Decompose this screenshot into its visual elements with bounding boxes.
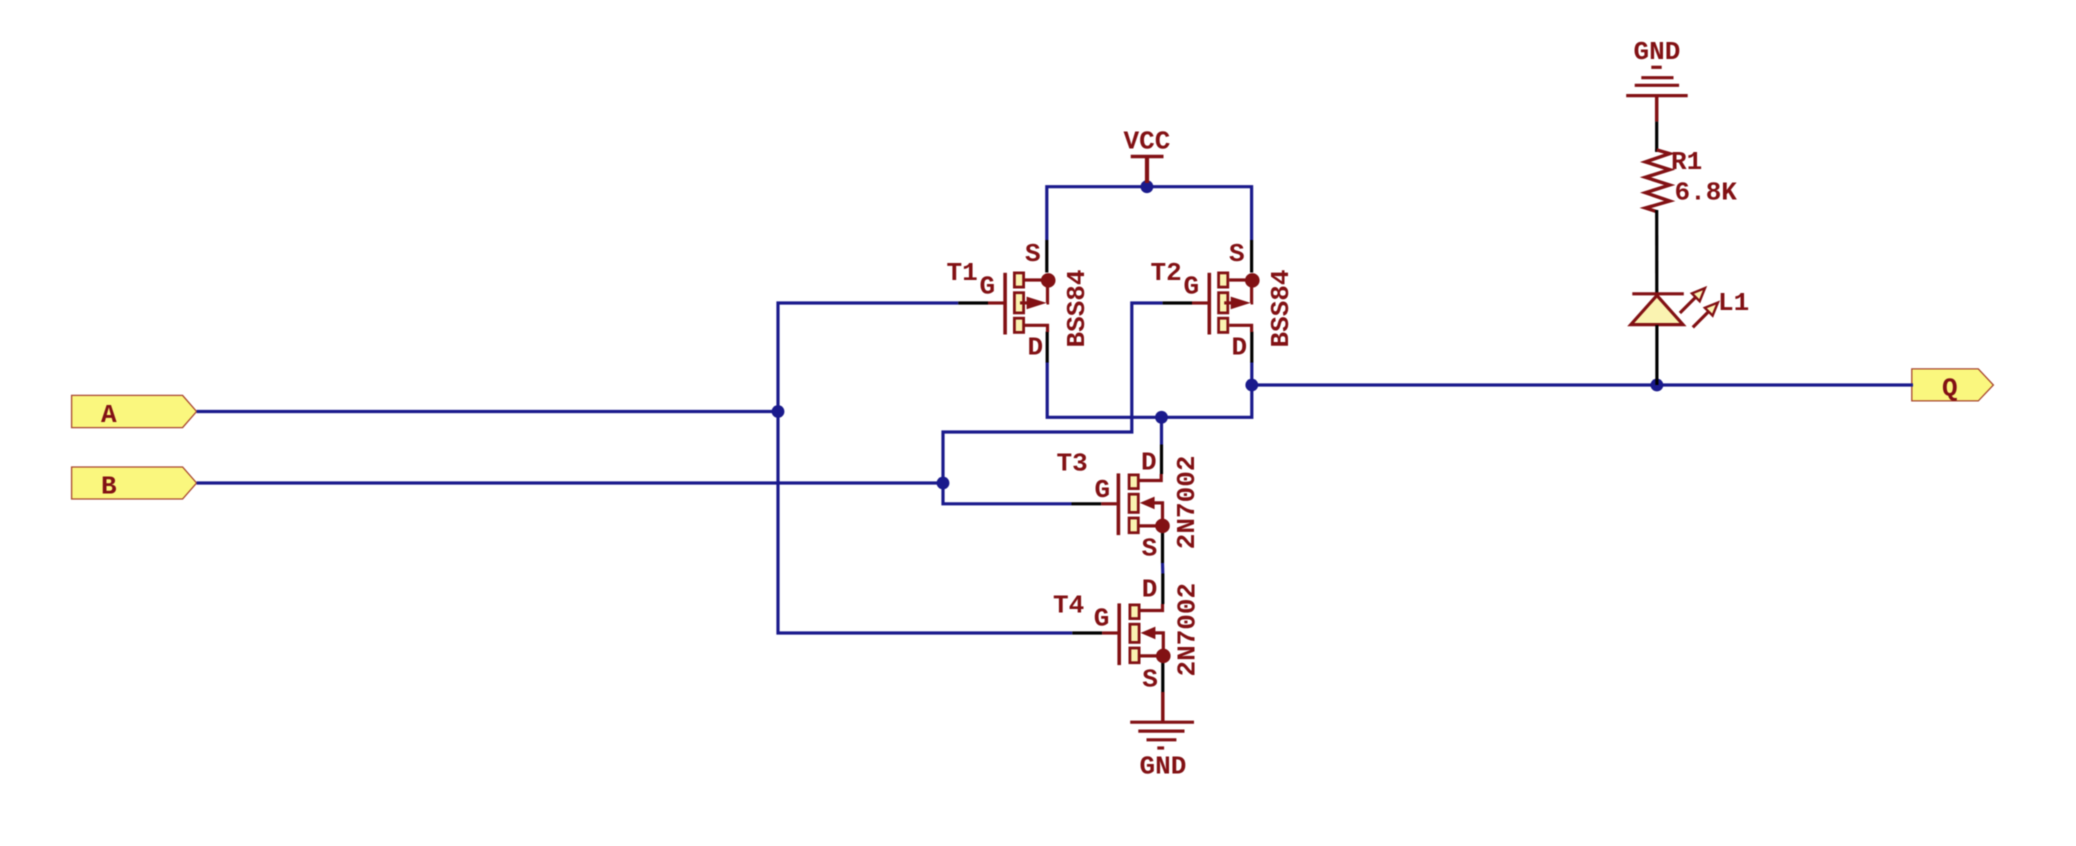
channel box bottom T2 <box>1219 318 1228 332</box>
channel box middle T1 <box>1014 293 1023 313</box>
channel box middle T4 <box>1130 624 1139 642</box>
svg-text:GND: GND <box>1140 752 1187 782</box>
channel box middle T3 <box>1129 494 1138 512</box>
pin D of T1 <box>1046 332 1049 363</box>
gnd dash small bottom <box>1157 746 1164 749</box>
svg-text:L1: L1 <box>1718 288 1749 318</box>
bulk arrow T3 <box>1140 497 1155 510</box>
supply symbol VCC <box>1124 127 1171 184</box>
source link T4 <box>1140 654 1163 657</box>
channel box top T3 <box>1129 475 1138 489</box>
pin 2 of L1 <box>1655 325 1658 385</box>
gate lead T3 <box>1101 502 1117 505</box>
light arrow 1 shaft <box>1680 297 1696 313</box>
bulk arrow T4 <box>1141 627 1156 640</box>
node junction A <box>772 405 785 418</box>
transistor T4 2N7002 <box>1053 574 1203 695</box>
svg-text:T3: T3 <box>1057 449 1088 479</box>
gate lead T4 <box>1102 631 1118 634</box>
transistor T2 BSS84 <box>1151 239 1297 363</box>
pin S of T4 <box>1161 663 1164 694</box>
bulk line T1 <box>1047 280 1048 303</box>
wire net between T3 source and T4 drain <box>1161 563 1165 574</box>
svg-text:S: S <box>1229 239 1245 269</box>
gate bar T4 <box>1117 603 1121 665</box>
gnd dash small <box>1651 66 1661 69</box>
pin D of T3 <box>1160 445 1163 475</box>
wire net output branch down to T3 drain <box>1160 417 1163 444</box>
gate bar T1 <box>1003 273 1007 335</box>
svg-text:A: A <box>101 400 117 430</box>
node junction VCC <box>1141 180 1154 193</box>
node junction B <box>937 477 950 490</box>
pin D of T4 <box>1161 574 1164 605</box>
svg-text:D: D <box>1142 575 1158 605</box>
VCC bar <box>1131 155 1164 158</box>
gnd stub bottom <box>1161 692 1165 722</box>
svg-text:VCC: VCC <box>1124 127 1171 157</box>
wire net A branch up to T1 gate <box>778 303 958 412</box>
wire net B horizontal <box>197 481 943 484</box>
LED L1 <box>1631 288 1749 385</box>
pin G of T1 <box>958 301 988 304</box>
bulk line T2 <box>1251 280 1252 303</box>
svg-text:G: G <box>980 272 996 302</box>
wire net T2 drain stub <box>1250 362 1253 385</box>
pin 1 of R1 <box>1655 149 1658 152</box>
pin D of T2 <box>1250 332 1253 363</box>
svg-text:S: S <box>1142 665 1158 695</box>
wire net VCC rail <box>1047 187 1252 240</box>
wire net Q output horizontal <box>1252 383 1913 386</box>
channel box bottom T3 <box>1129 518 1138 533</box>
svg-text:2N7002: 2N7002 <box>1172 456 1202 550</box>
wire net B branch down to T3 gate <box>943 483 1072 504</box>
gate lead T2 <box>1192 301 1208 304</box>
pin S of T1 <box>1045 240 1048 273</box>
gnd stub <box>1655 96 1659 122</box>
light arrow 1 head <box>1692 288 1705 301</box>
source dot T4 <box>1156 649 1171 664</box>
bulk line T4 <box>1155 633 1164 656</box>
gate lead T1 <box>988 301 1004 304</box>
source link T2 <box>1229 278 1252 281</box>
channel box top T2 <box>1219 273 1228 287</box>
svg-text:BSS84: BSS84 <box>1062 269 1092 347</box>
wire net A branch down to T4 gate <box>778 412 1072 634</box>
gnd pin black <box>1655 122 1658 151</box>
gnd line 2 bottom <box>1138 729 1184 732</box>
transistor T1 BSS84 <box>947 239 1092 363</box>
resistor R1 <box>1645 147 1737 294</box>
svg-text:D: D <box>1028 333 1044 363</box>
pin S of T3 <box>1161 533 1164 564</box>
channel box middle T2 <box>1219 293 1228 313</box>
channel box top T1 <box>1014 273 1023 287</box>
svg-text:S: S <box>1142 534 1158 564</box>
bulk line T3 <box>1154 503 1163 526</box>
VCC stub <box>1145 157 1149 184</box>
drain link T3 <box>1139 474 1161 481</box>
svg-text:T4: T4 <box>1053 591 1084 621</box>
gate bar T2 <box>1208 273 1212 335</box>
gnd line 3 bottom <box>1147 738 1177 741</box>
drain link T4 <box>1140 604 1163 611</box>
svg-text:6.8K: 6.8K <box>1675 178 1738 208</box>
svg-text:T1: T1 <box>947 258 978 288</box>
drain link T2 <box>1229 325 1251 332</box>
source dot T1 <box>1041 273 1056 288</box>
transistor T3 2N7002 <box>1057 445 1202 564</box>
wire net B branch up to T2 gate <box>943 303 1163 483</box>
channel box top T4 <box>1130 605 1139 619</box>
zigzag body R1 <box>1645 150 1669 212</box>
light arrow 2 shaft <box>1693 312 1709 328</box>
svg-text:S: S <box>1025 239 1041 269</box>
svg-text:Q: Q <box>1942 373 1958 403</box>
svg-text:2N7002: 2N7002 <box>1173 583 1203 677</box>
source dot T2 <box>1245 273 1260 288</box>
svg-text:G: G <box>1094 604 1110 634</box>
triangle L1 <box>1631 295 1683 324</box>
cathode bar L1 <box>1632 292 1684 295</box>
pin 2 of R1 <box>1655 210 1658 294</box>
port flag Q <box>1912 369 1994 403</box>
gate bar T3 <box>1117 473 1121 535</box>
port flag A <box>72 395 197 429</box>
svg-text:G: G <box>1184 272 1200 302</box>
gnd line widest <box>1626 94 1688 97</box>
node junction LED <box>1651 379 1664 392</box>
pin G of T4 <box>1072 631 1102 634</box>
gnd line 3 <box>1635 84 1679 87</box>
channel box bottom T4 <box>1130 648 1139 663</box>
pin S of T2 <box>1250 240 1253 273</box>
svg-text:BSS84: BSS84 <box>1266 269 1296 347</box>
svg-text:R1: R1 <box>1671 147 1702 177</box>
ground symbol GND top right <box>1626 37 1688 151</box>
svg-text:D: D <box>1232 333 1248 363</box>
node junction output at T2 drain <box>1245 379 1258 392</box>
gnd line 2 <box>1641 76 1673 79</box>
pin G of T2 <box>1163 301 1192 304</box>
pin G of T3 <box>1072 502 1102 505</box>
svg-text:B: B <box>101 471 117 501</box>
bulk arrow T2 <box>1231 297 1251 310</box>
svg-text:G: G <box>1095 475 1111 505</box>
drain link T1 <box>1025 325 1048 332</box>
source dot T3 <box>1155 519 1170 534</box>
node junction output at T3 drain branch <box>1155 411 1168 424</box>
bulk arrow T1 <box>1027 297 1047 310</box>
svg-text:T2: T2 <box>1151 258 1182 288</box>
channel box bottom T1 <box>1014 318 1023 332</box>
svg-text:D: D <box>1141 448 1157 478</box>
source link T3 <box>1139 524 1162 527</box>
light arrow 2 head <box>1705 303 1718 316</box>
source link T1 <box>1025 278 1048 281</box>
wire net A horizontal <box>197 410 778 413</box>
svg-text:GND: GND <box>1634 37 1681 67</box>
gnd line widest bottom <box>1130 721 1194 724</box>
ground symbol GND bottom <box>1130 692 1194 782</box>
port flag B <box>72 467 197 501</box>
wire net output from T1 drain <box>1047 362 1252 417</box>
